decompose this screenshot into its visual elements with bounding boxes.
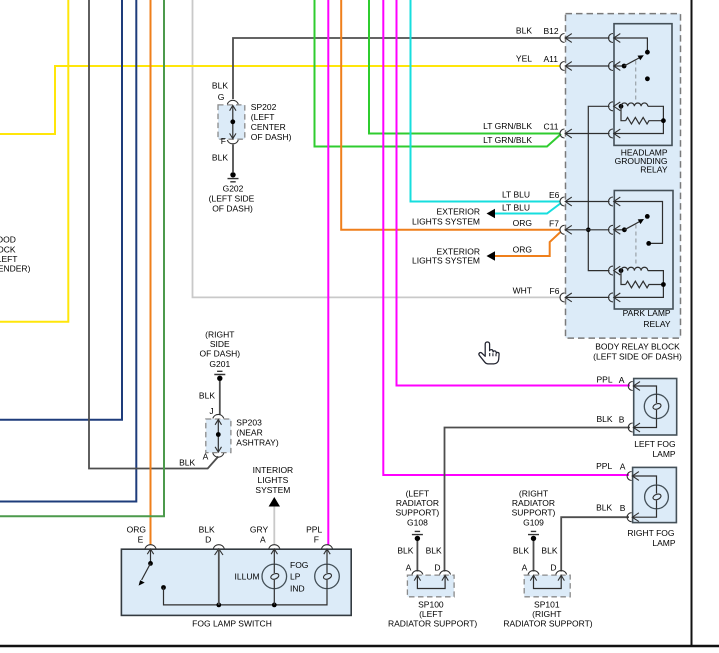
mouse cursor <box>479 342 499 364</box>
svg-text:OOD: OOD <box>0 235 16 245</box>
pin A connector of right fog lamp <box>627 472 639 481</box>
relay U2 lower contact <box>646 241 651 246</box>
svg-text:A: A <box>406 563 412 573</box>
svg-text:(NEAR: (NEAR <box>236 428 262 438</box>
pin D connector of SP100 <box>440 571 451 575</box>
body relay block (dashed) <box>566 14 681 339</box>
splice SP101 <box>524 575 570 597</box>
label park lamp relay <box>623 308 671 329</box>
svg-text:LEFT: LEFT <box>0 254 18 264</box>
svg-text:B: B <box>619 415 625 425</box>
svg-text:F7: F7 <box>549 219 559 229</box>
label PPL F at switch <box>306 525 322 545</box>
label A D at SP101 <box>522 563 557 573</box>
label A D at SP100 <box>406 563 441 573</box>
label G109 block <box>512 489 556 528</box>
splice SP202 <box>218 105 245 139</box>
svg-text:J: J <box>209 406 213 416</box>
svg-text:G201: G201 <box>209 359 230 369</box>
label RIGHT FOG LAMP <box>627 528 675 548</box>
label body relay block <box>593 342 682 362</box>
svg-text:F: F <box>314 535 319 545</box>
exterior lights system arrow (ORG) <box>487 251 496 261</box>
svg-text:OF DASH): OF DASH) <box>251 132 292 142</box>
headlamp grounding relay box U1 <box>614 24 672 146</box>
svg-text:(RIGHT: (RIGHT <box>532 609 561 619</box>
label exterior lights system 1 <box>412 207 480 227</box>
label G202 <box>209 184 255 214</box>
wire BLK from G108 to SP100 pin A <box>416 541 418 572</box>
svg-text:(LEFT: (LEFT <box>251 112 275 122</box>
ground G108 <box>412 531 423 541</box>
svg-text:SP101: SP101 <box>534 600 560 610</box>
relay U1 resistor <box>626 117 666 124</box>
wire DK BLU trunk 2 exiting left <box>0 0 136 502</box>
splice SP203 <box>206 419 231 453</box>
svg-text:B12: B12 <box>544 26 559 36</box>
svg-text:PPL: PPL <box>597 375 613 385</box>
node junction F7/coil feed <box>586 228 591 233</box>
coil pin connector U1 at relay edge <box>609 102 621 111</box>
svg-text:SUPPORT): SUPPORT) <box>396 508 440 518</box>
svg-text:ORG: ORG <box>513 218 532 228</box>
switch pin D internal wire <box>218 550 220 605</box>
wire PPL trunk to right fog lamp pin A <box>383 0 629 475</box>
pin A connector of SP100 <box>412 571 423 575</box>
label ORG E at switch <box>127 525 146 545</box>
svg-text:OCK: OCK <box>0 245 16 255</box>
wire WHT from F6 park lamp relay up-left across page <box>193 0 562 297</box>
relay U1 switch blade <box>622 55 644 68</box>
label SP202 <box>251 102 292 142</box>
svg-text:RADIATOR: RADIATOR <box>396 498 439 508</box>
label YEL at A11 <box>516 54 558 65</box>
svg-text:(RIGHT: (RIGHT <box>205 330 234 340</box>
svg-text:LAMP: LAMP <box>652 449 675 459</box>
wire pin C11 segment <box>566 121 663 134</box>
pin D connector of switch <box>213 545 224 555</box>
svg-text:LIGHTS SYSTEM: LIGHTS SYSTEM <box>412 256 480 266</box>
svg-text:(RIGHT: (RIGHT <box>519 489 548 499</box>
label interior lights system <box>253 465 294 495</box>
label ORG at F7 <box>513 218 560 229</box>
relay U2 resistor <box>626 281 666 288</box>
svg-text:SP202: SP202 <box>251 102 277 112</box>
svg-text:BLK: BLK <box>199 391 215 401</box>
label BLK pair at SP101 <box>513 546 558 556</box>
wire BLK left trunk to SP203 pin A <box>89 0 218 469</box>
label cut-off text at left edge (junction block) <box>0 235 31 274</box>
svg-text:A11: A11 <box>544 54 559 64</box>
label F and BLK below SP202 <box>212 136 228 163</box>
svg-text:(LEFT SIDE: (LEFT SIDE <box>209 194 255 204</box>
pin A connector of left fog lamp <box>628 382 640 391</box>
wire pin B12 segment <box>566 38 647 50</box>
svg-text:LT BLU: LT BLU <box>502 190 530 200</box>
label G108 block <box>396 489 440 528</box>
label exterior lights system 2 <box>412 247 480 266</box>
svg-text:(LEFT: (LEFT <box>406 489 430 499</box>
coil pin connector U2 at relay edge <box>609 266 621 275</box>
lamp ILLUM <box>262 550 287 605</box>
pin B connector of right fog lamp <box>627 513 639 522</box>
label ORG branch <box>513 245 532 255</box>
wire GRY from interior lights system arrow to switch pin A <box>273 506 275 545</box>
wire BLK from SP202 pin G to B12 <box>233 38 560 99</box>
switch internal bus wire <box>164 588 328 608</box>
interior lights system arrow (GRY) <box>269 497 280 507</box>
label BLK B at left fog lamp <box>597 414 625 425</box>
svg-text:B: B <box>620 503 626 513</box>
svg-text:ENDER): ENDER) <box>0 264 31 274</box>
svg-text:OF DASH): OF DASH) <box>212 204 253 214</box>
svg-text:E6: E6 <box>549 190 560 200</box>
pin B connector of left fog lamp <box>628 423 640 432</box>
svg-text:BLK: BLK <box>596 503 612 513</box>
pin J connector of SP203 <box>213 414 224 418</box>
pin B12 connector at relay edge <box>609 34 621 43</box>
svg-text:ORG: ORG <box>127 525 146 535</box>
svg-text:CENTER: CENTER <box>251 122 286 132</box>
svg-text:F: F <box>221 136 226 146</box>
pin E connector of switch <box>145 545 156 555</box>
svg-text:LIGHTS SYSTEM: LIGHTS SYSTEM <box>412 217 480 227</box>
lamp FOG LP IND <box>315 550 340 589</box>
svg-text:SP100: SP100 <box>418 600 444 610</box>
wire BLK from G109 to SP101 pin A <box>533 541 535 572</box>
svg-text:GRY: GRY <box>250 525 269 535</box>
svg-text:D: D <box>550 563 556 573</box>
pin A11 connector at block edge <box>560 62 572 71</box>
svg-text:LAMP: LAMP <box>652 538 675 548</box>
svg-text:WHT: WHT <box>513 286 532 296</box>
svg-text:RADIATOR SUPPORT): RADIATOR SUPPORT) <box>388 619 477 629</box>
label FOG LP IND <box>290 560 308 594</box>
wire pin E6 segment <box>566 202 663 244</box>
splice SP100 <box>407 575 454 597</box>
svg-text:BLK: BLK <box>513 546 529 556</box>
wire ORG left trunk to fog lamp switch pin E <box>150 0 152 545</box>
label PPL A at left fog lamp <box>597 375 625 386</box>
wire BLK from G201 to SP203 pin J <box>219 381 221 415</box>
svg-text:LP: LP <box>290 572 301 582</box>
svg-text:ORG: ORG <box>513 245 532 255</box>
svg-text:ILLUM: ILLUM <box>235 572 260 582</box>
wire PPL trunk to left fog lamp pin A <box>397 0 631 386</box>
pin E6 connector at relay edge <box>609 197 621 206</box>
wire ORG branch to exterior lights system arrow <box>492 232 561 257</box>
label G201 block <box>199 330 240 370</box>
svg-text:FOG LAMP SWITCH: FOG LAMP SWITCH <box>192 619 272 629</box>
svg-text:BLK: BLK <box>199 525 215 535</box>
svg-text:RELAY: RELAY <box>643 319 671 329</box>
wire pin F7 segment <box>566 229 622 231</box>
label BLK at G201 wire <box>199 391 215 417</box>
svg-text:SIDE: SIDE <box>210 339 230 349</box>
wire BLK from right fog lamp pin B to SP101 pin D <box>561 517 629 571</box>
svg-text:FOG: FOG <box>290 560 308 570</box>
label LT BLU at E6 <box>502 190 560 201</box>
label SP203 <box>236 418 279 448</box>
label SP100 <box>388 600 477 629</box>
svg-text:BLK: BLK <box>541 546 557 556</box>
wire YEL feed from left edge to A11 <box>0 66 560 134</box>
svg-text:A: A <box>260 535 266 545</box>
label BLK above SP202 pin G <box>212 81 228 103</box>
pin E6 connector at block edge <box>560 197 572 206</box>
svg-text:(LEFT SIDE OF DASH): (LEFT SIDE OF DASH) <box>593 352 682 362</box>
pin B12 connector at block edge <box>560 34 572 43</box>
label BLK at B12 <box>516 26 559 37</box>
wire coil feed from headlamp relay coil to park lamp relay coil <box>588 106 609 270</box>
wire PPL trunk to fog lamp switch pin F <box>327 0 329 545</box>
label ILLUM <box>235 572 260 582</box>
svg-text:SP203: SP203 <box>236 418 262 428</box>
svg-text:OF DASH): OF DASH) <box>199 349 240 359</box>
wire LT GRN/BLK lower branch to C11 <box>315 0 562 147</box>
wire LT BLU trunk to E6 <box>411 0 561 202</box>
pin F7 connector at relay edge <box>609 225 621 234</box>
relay U1 actuator dashed link <box>635 61 637 103</box>
right fog lamp box <box>633 467 677 522</box>
pin D connector of SP101 <box>556 571 567 575</box>
svg-text:BLK: BLK <box>516 26 532 36</box>
relay U1 floating contact <box>645 76 650 81</box>
pin C11 connector at block edge <box>560 129 572 138</box>
svg-text:RADIATOR: RADIATOR <box>512 498 555 508</box>
ground G109 <box>528 531 539 541</box>
label LT BLU branch <box>502 203 530 213</box>
svg-text:LT GRN/BLK: LT GRN/BLK <box>483 135 532 145</box>
ground G201 <box>214 371 225 381</box>
svg-text:BLK: BLK <box>597 414 613 424</box>
wire BLK from left fog lamp pin B to SP100 pin D <box>445 428 631 572</box>
label BLK pair at SP100 <box>397 546 442 556</box>
svg-text:SUPPORT): SUPPORT) <box>512 508 556 518</box>
wire DK BLU trunk 1 exiting left <box>0 0 122 420</box>
pin F connector of SP202 <box>227 140 238 144</box>
label PPL A at right fog lamp <box>596 461 626 472</box>
svg-text:A: A <box>203 452 209 462</box>
svg-text:G: G <box>218 92 225 102</box>
svg-text:BLK: BLK <box>212 153 228 163</box>
pin A connector of SP101 <box>528 571 539 575</box>
relay U2 coil <box>619 267 664 284</box>
svg-text:PARK LAMP: PARK LAMP <box>623 308 671 318</box>
svg-text:IND: IND <box>290 584 305 594</box>
park lamp relay box U2 <box>614 191 673 310</box>
svg-text:D: D <box>205 535 211 545</box>
exterior lights system arrow (LT BLU) <box>487 209 496 219</box>
svg-text:LT GRN/BLK: LT GRN/BLK <box>483 121 532 131</box>
svg-text:YEL: YEL <box>516 54 532 64</box>
svg-text:BLK: BLK <box>179 458 195 468</box>
relay U1 coil <box>619 103 664 121</box>
label GRY A at switch <box>250 525 269 545</box>
wire YEL vertical trunk exiting left <box>0 0 68 322</box>
svg-text:PPL: PPL <box>596 461 612 471</box>
svg-text:EXTERIOR: EXTERIOR <box>437 207 480 217</box>
pin F connector of switch <box>322 545 333 555</box>
svg-text:LIGHTS: LIGHTS <box>258 475 289 485</box>
svg-text:G108: G108 <box>407 518 428 528</box>
svg-text:G109: G109 <box>523 518 544 528</box>
svg-text:SYSTEM: SYSTEM <box>255 485 290 495</box>
svg-text:RIGHT FOG: RIGHT FOG <box>627 528 674 538</box>
wire LT BLU branch to exterior lights system arrow <box>492 203 561 214</box>
svg-text:G202: G202 <box>223 184 244 194</box>
wire pin A11 segment <box>566 65 622 67</box>
pin A connector of SP203 <box>213 453 224 457</box>
label LT GRN/BLK lower <box>483 135 532 145</box>
fog lamp switch box S1 <box>121 549 351 615</box>
relay U1 upper contact <box>645 50 650 55</box>
svg-text:PPL: PPL <box>306 525 322 535</box>
ground G202 <box>228 172 239 182</box>
switch blade and contacts <box>139 550 166 590</box>
svg-text:(LEFT: (LEFT <box>419 609 443 619</box>
svg-text:ASHTRAY): ASHTRAY) <box>236 438 279 448</box>
label BLK B at right fog lamp <box>596 503 626 514</box>
wire LT GRN/BLK upper branch to C11 <box>369 0 560 134</box>
svg-text:LT BLU: LT BLU <box>502 203 530 213</box>
relay U2 switch blade <box>622 219 644 232</box>
svg-text:F6: F6 <box>550 286 560 296</box>
pin F7 connector at block edge <box>560 225 572 234</box>
svg-text:C11: C11 <box>544 122 559 132</box>
label A and BLK at SP203 <box>179 452 209 468</box>
label BLK D at switch <box>199 525 215 545</box>
label SP101 <box>503 600 592 629</box>
pin C11 connector at relay edge <box>609 129 621 138</box>
svg-text:RADIATOR SUPPORT): RADIATOR SUPPORT) <box>503 619 592 629</box>
pin F6 connector at block edge <box>560 293 572 302</box>
svg-text:BLK: BLK <box>397 546 413 556</box>
label FOG LAMP SWITCH <box>192 619 272 629</box>
left fog lamp box <box>634 379 677 436</box>
page border right <box>691 0 693 646</box>
svg-text:BLK: BLK <box>212 81 228 91</box>
relay U2 actuator dashed link <box>635 225 637 267</box>
pin A connector of switch <box>269 545 280 555</box>
svg-text:RELAY: RELAY <box>640 165 668 175</box>
label LEFT FOG LAMP <box>634 439 676 459</box>
svg-text:A: A <box>619 375 625 385</box>
pin G connector of SP202 <box>227 100 238 104</box>
pin F6 connector at relay edge <box>609 293 621 302</box>
svg-text:A: A <box>522 563 528 573</box>
wire DK GRN trunk exiting left <box>0 0 164 516</box>
pin A11 connector at relay edge <box>609 62 621 71</box>
page border bottom <box>0 645 719 648</box>
svg-text:A: A <box>620 462 626 472</box>
wire ORG trunk to F7 <box>341 0 560 230</box>
svg-text:D: D <box>434 563 440 573</box>
svg-text:BODY RELAY BLOCK: BODY RELAY BLOCK <box>595 342 680 352</box>
svg-text:E: E <box>138 535 144 545</box>
wire BLK from SP202 pin F to G202 <box>232 145 234 173</box>
label headlamp grounding relay <box>615 148 668 175</box>
label LT GRN/BLK upper at C11 <box>483 121 559 132</box>
relay U2 upper contact <box>645 214 650 219</box>
svg-text:LEFT FOG: LEFT FOG <box>634 439 675 449</box>
svg-text:INTERIOR: INTERIOR <box>253 465 294 475</box>
wire pin F6 segment <box>566 285 663 298</box>
label WHT at F6 <box>513 286 560 297</box>
svg-text:BLK: BLK <box>426 546 442 556</box>
